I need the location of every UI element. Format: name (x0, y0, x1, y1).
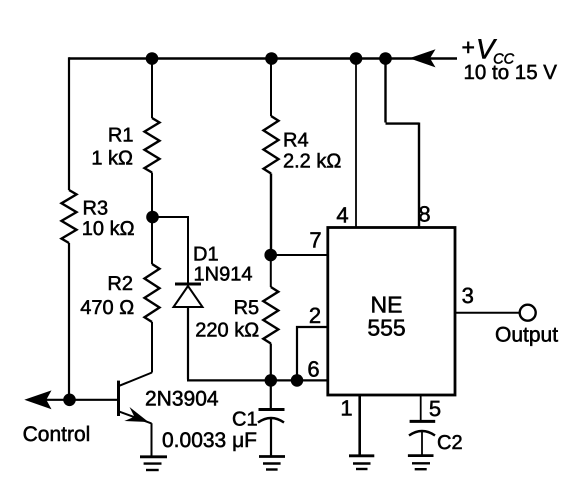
node pin2 junction (291, 374, 304, 387)
wire top VCC rail (69, 57, 457, 60)
node pin7 junction (264, 249, 277, 262)
node rail-R1 junction (146, 52, 159, 65)
svg-text:Control: Control (23, 423, 91, 446)
wire R5 bottom (270, 344, 272, 381)
node rail-pin4 junction (350, 52, 363, 65)
wire R2 top (151, 217, 153, 264)
resistor R4 (264, 116, 279, 174)
svg-text:R3: R3 (83, 198, 109, 220)
svg-text:220 kΩ: 220 kΩ (195, 320, 259, 342)
wire R1 bottom to node (151, 173, 153, 218)
wire pin 4 (355, 59, 357, 228)
wire left rail upper (68, 57, 70, 190)
svg-text:R1: R1 (108, 125, 134, 147)
diode D1 1N914 (174, 284, 203, 307)
wire pin 8 (386, 59, 420, 228)
svg-text:D1: D1 (193, 244, 219, 266)
VCC arrowhead (409, 49, 435, 67)
svg-text:10 to 15 V: 10 to 15 V (464, 61, 558, 84)
node C1 junction (265, 374, 278, 387)
svg-text:1N914: 1N914 (194, 264, 253, 286)
svg-text:4: 4 (336, 203, 348, 228)
svg-text:R4: R4 (283, 130, 309, 152)
wire R4 bottom to pin7 node (270, 174, 272, 256)
svg-text:C2: C2 (437, 432, 463, 454)
wire pin 2 (297, 327, 328, 380)
resistor R3 (62, 190, 77, 243)
wire pin 7 (271, 254, 328, 256)
control arrowhead (24, 390, 51, 409)
wire pin 5 (420, 395, 422, 421)
svg-text:2: 2 (309, 303, 321, 328)
node control junction (63, 394, 76, 407)
svg-text:555: 555 (367, 315, 405, 341)
svg-text:8: 8 (418, 202, 430, 227)
wire emitter down (151, 423, 153, 457)
wire pin 3 output (455, 312, 520, 314)
output terminal circle (520, 305, 536, 321)
wire D1 anode to bottom rail (187, 307, 328, 380)
wire pin 1 (358, 395, 361, 456)
svg-text:0.0033 μF: 0.0033 μF (162, 429, 257, 452)
ground C2 (408, 456, 434, 470)
node rail-pin8 junction (379, 52, 392, 65)
svg-text:7: 7 (309, 228, 321, 253)
wire R1 top (151, 59, 153, 119)
ground pin 1 (349, 456, 374, 469)
node rail-R4 junction (265, 52, 278, 65)
svg-text:1: 1 (340, 396, 352, 421)
svg-text:R2: R2 (107, 273, 133, 295)
wire R5 top (270, 255, 272, 287)
svg-text:C1: C1 (232, 409, 258, 431)
wire node to D1 top (153, 217, 189, 283)
svg-text:3: 3 (462, 283, 474, 308)
svg-text:Output: Output (495, 323, 558, 346)
resistor R1 (145, 118, 160, 173)
svg-text:470 Ω: 470 Ω (80, 297, 134, 319)
capacitor C2 (409, 421, 435, 455)
node R1-R2-D1 junction (146, 211, 159, 224)
wire R2 bottom to collector (151, 322, 153, 373)
ground emitter (140, 457, 167, 470)
capacitor C1 (258, 380, 285, 456)
svg-text:5: 5 (429, 396, 441, 421)
svg-text:2.2 kΩ: 2.2 kΩ (283, 151, 341, 173)
svg-text:10 kΩ: 10 kΩ (82, 218, 135, 240)
svg-text:6: 6 (307, 357, 319, 382)
svg-text:R5: R5 (234, 297, 260, 319)
wire left rail lower (68, 243, 70, 400)
wire R4 top (270, 59, 272, 117)
svg-text:2N3904: 2N3904 (145, 388, 219, 411)
resistor R5 (263, 287, 278, 344)
transistor Q1 2N3904 (119, 373, 153, 424)
wire control line (30, 399, 119, 401)
ground C1 (259, 457, 285, 470)
svg-text:1 kΩ: 1 kΩ (91, 147, 133, 169)
resistor R2 (145, 264, 160, 322)
op-amp U1 NE555 box (328, 228, 455, 396)
